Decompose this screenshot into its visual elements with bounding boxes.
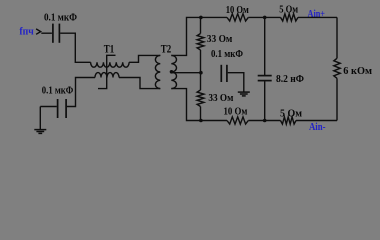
- node tap junction: [199, 71, 203, 75]
- wire R33a to tap node: [200, 50, 202, 90]
- wire T1 primary to T2 primary top: [129, 55, 160, 62]
- resistor R6k 6 kOhm: [334, 58, 340, 78]
- wire T2 secondary bottom to rail: [171, 89, 201, 121]
- wire T1 secondary to T2 primary bottom: [119, 78, 160, 89]
- svg-text:T1: T1: [104, 43, 115, 55]
- capacitor C1 plates: [52, 24, 54, 43]
- resistor R33a 33 Ohm: [197, 34, 204, 51]
- svg-text:33 Ом: 33 Ом: [207, 33, 233, 45]
- wire T2 center tap to C3: [172, 72, 202, 74]
- svg-text:0.1 мкФ: 0.1 мкФ: [42, 84, 74, 96]
- transformer T2 secondary winding: [171, 55, 176, 88]
- node 8.2nF top junction: [263, 16, 267, 20]
- svg-text:8.2 нФ: 8.2 нФ: [276, 73, 304, 85]
- capacitor C4 8.2 nF plates: [258, 75, 272, 77]
- resistor R5a 5 Ohm: [281, 14, 299, 21]
- capacitor C2 plates: [57, 99, 59, 118]
- capacitor C3 plates: [220, 65, 222, 82]
- svg-text:10 Ом: 10 Ом: [226, 5, 249, 16]
- wire C3 to ground: [228, 73, 244, 92]
- wire bottom rail right: [296, 120, 337, 122]
- wire 8.2nF bottom: [264, 81, 266, 120]
- transformer T2 primary winding: [155, 55, 160, 88]
- svg-text:T2: T2: [161, 43, 172, 55]
- svg-text:0.1 мкФ: 0.1 мкФ: [211, 49, 243, 60]
- wire C1 to T1 primary: [60, 33, 90, 62]
- svg-text:33 Ом: 33 Ом: [208, 92, 234, 104]
- resistor R33b 33 Ohm: [197, 90, 204, 107]
- transformer T1 primary winding: [91, 62, 130, 67]
- wire rail to R33a: [200, 17, 202, 33]
- wire bottom rail left: [201, 120, 227, 122]
- svg-text:6 кОм: 6 кОм: [343, 65, 372, 77]
- transformer T1 core slug: [98, 55, 116, 88]
- svg-text:fпч: fпч: [19, 26, 33, 38]
- node bottom rail junction: [199, 119, 203, 123]
- wire R33b to bottom rail: [200, 107, 202, 121]
- svg-text:10 Ом: 10 Ом: [224, 107, 248, 118]
- wire right rail down: [336, 17, 338, 58]
- wire top rail mid: [248, 16, 280, 18]
- node T2 center tap: [170, 70, 174, 74]
- wire C2 to ground: [40, 106, 57, 108]
- ground G1: [39, 107, 41, 130]
- wire T2 secondary top to rail: [171, 17, 201, 55]
- wire 8.2nF top: [264, 17, 266, 75]
- svg-text:5 Ом: 5 Ом: [280, 109, 302, 120]
- svg-text:0.1 мкФ: 0.1 мкФ: [44, 12, 77, 24]
- resistor R5b 5 Ohm: [281, 117, 297, 124]
- wire top rail left: [201, 16, 227, 18]
- input arrow: [36, 29, 41, 34]
- wire top rail right: [298, 16, 337, 18]
- svg-text:5 Ом: 5 Ом: [279, 5, 298, 16]
- wire bottom rail mid: [248, 120, 280, 122]
- wire T1 secondary left to C2: [67, 78, 95, 107]
- svg-text:Ain+: Ain+: [308, 9, 326, 20]
- resistor R10a 10 Ohm: [227, 14, 248, 21]
- wire input to C1: [41, 32, 52, 34]
- node rail top / R33a junction: [199, 16, 203, 20]
- resistor R10b 10 Ohm: [227, 117, 248, 124]
- svg-text:Ain-: Ain-: [309, 122, 326, 133]
- node 8.2nF bottom junction: [263, 119, 267, 123]
- ground G2: [243, 91, 245, 93]
- wire 6 kOhm to bottom rail: [336, 78, 338, 120]
- transformer T1 secondary winding: [95, 73, 119, 78]
